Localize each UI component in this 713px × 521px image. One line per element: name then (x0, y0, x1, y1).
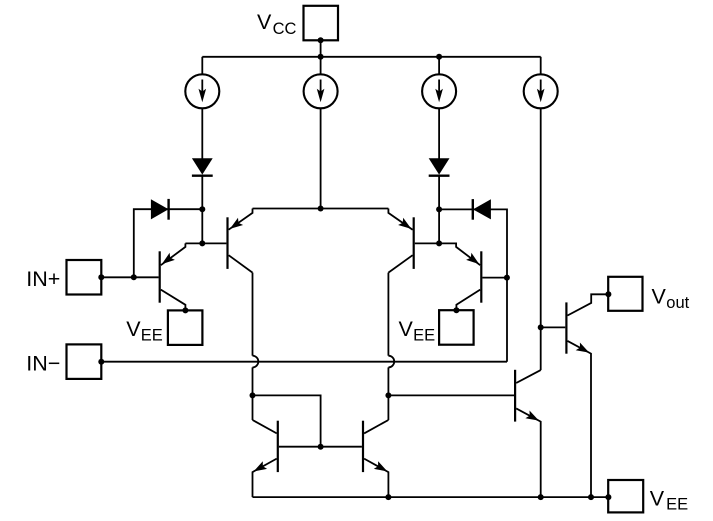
diode D3 (151, 199, 169, 220)
current source I4 (524, 74, 558, 108)
junction dot Q6 emitter (385, 494, 391, 500)
svg-text:V: V (399, 317, 414, 341)
junction dot mirror output (385, 392, 391, 398)
wire IN+ to Q1 base (101, 276, 158, 278)
label IN- (26, 351, 60, 375)
current source I2 (304, 74, 338, 108)
svg-text:EE: EE (413, 326, 435, 344)
label VCC (257, 10, 297, 38)
transistor Q2 (PNP) (228, 209, 253, 273)
svg-text:EE: EE (666, 495, 688, 513)
port box VEE bottom (608, 480, 643, 512)
wire Q2 collector down with hop (253, 273, 259, 420)
diode D1 (192, 158, 213, 175)
label IN+ (26, 267, 60, 291)
junction dot mirror base rail (318, 444, 324, 450)
junction dot Q4 emitter node (436, 240, 442, 246)
wire bottom VEE rail (253, 496, 609, 498)
wire Q4 base (482, 277, 507, 279)
junction dot IN+ node (131, 274, 137, 280)
wire I3 to D2 (438, 108, 440, 158)
svg-text:IN+: IN+ (26, 267, 60, 291)
junction dot D4 anode node (436, 206, 442, 212)
wire IN- rail (101, 361, 507, 363)
junction dot emitter rail (318, 206, 324, 212)
junction dot Q1 emitter node (199, 240, 205, 246)
svg-text:V: V (652, 284, 667, 308)
wire mirror to Q7 base (388, 394, 514, 396)
wire rail to I1 (201, 57, 203, 75)
junction dot VEE mid box (453, 307, 459, 313)
port box Vout (608, 277, 642, 311)
label VEE bottom (650, 486, 688, 513)
wire I2 down to emitter rail (320, 108, 322, 208)
label VEE left (126, 317, 163, 345)
wire Q3 collector down with hop (388, 273, 394, 420)
wire Q3 base to Q4 emitter (415, 243, 480, 265)
svg-text:V: V (257, 10, 272, 34)
junction dot VEE bottom box (605, 494, 611, 500)
port box VEE mid (439, 310, 474, 345)
junction dot IN- box (98, 359, 104, 365)
junction dot top rail right (436, 54, 442, 60)
svg-text:EE: EE (141, 326, 163, 344)
junction dot D3 cathode node (199, 206, 205, 212)
wire I1 to D1 (201, 108, 203, 158)
label Vout (652, 284, 690, 312)
wire Q1 emitter to Q2 base (185, 242, 226, 244)
junction dot IN+ box (98, 274, 104, 280)
transistor Q4 (PNP input) (456, 251, 481, 310)
node VCC top rail (202, 56, 540, 58)
wire rail to I2 (320, 57, 322, 75)
diode D2 (429, 158, 450, 175)
junction dot IN- riser (504, 275, 510, 281)
junction dot Q8 base node (538, 324, 544, 330)
junction dot Q8 emitter (588, 494, 594, 500)
wire mirror base rail (279, 446, 362, 448)
wire I4 down to Q7 collector (540, 108, 542, 370)
svg-text:IN−: IN− (26, 351, 60, 375)
junction dot VEE left box (182, 307, 188, 313)
wire Q8 base (541, 326, 566, 328)
transistor Q7 (NPN gain stage) (515, 370, 541, 497)
port box IN- (67, 344, 102, 379)
port box VEE left (168, 310, 203, 345)
wire D2 down to base node (438, 176, 440, 244)
transistor Q8 (NPN output) (566, 294, 608, 497)
junction dot mirror input (250, 392, 256, 398)
port box IN+ (67, 260, 102, 295)
transistor Q6 (NPN mirror) (363, 420, 388, 497)
port box VCC (304, 6, 339, 41)
wire D3 anode and drop to IN+ (134, 209, 203, 277)
svg-text:V: V (650, 486, 665, 510)
wire rail to I4 (540, 57, 542, 75)
wire D1 down to base node (201, 176, 203, 244)
current source I1 (185, 74, 219, 108)
wire rail to I3 (438, 57, 440, 75)
transistor Q3 (PNP) (388, 209, 413, 273)
junction dot Q7 emitter (538, 494, 544, 500)
junction dot top rail (318, 54, 324, 60)
svg-text:V: V (126, 317, 141, 341)
diode D4 (473, 199, 491, 220)
current source I3 (422, 74, 456, 108)
transistor Q5 (NPN mirror) (253, 420, 278, 497)
junction dot VCC box (318, 37, 324, 43)
wire shared emitter rail (253, 208, 389, 210)
wire D4 net with riser (439, 209, 507, 361)
junction dot Vout box (605, 291, 611, 297)
label VEE mid (399, 317, 436, 345)
svg-text:out: out (666, 294, 689, 312)
wire mirror diode link (253, 395, 321, 446)
wire VCC box to top rail (320, 40, 322, 57)
svg-text:CC: CC (273, 20, 297, 38)
transistor Q1 (PNP input) (160, 243, 186, 310)
